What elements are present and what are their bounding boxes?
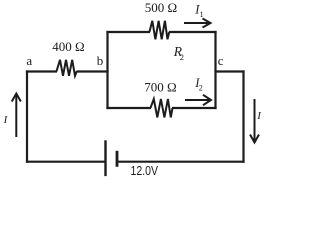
wire top branch left segment [106,31,150,33]
wire parallel-box left vertical [106,31,108,109]
current arrow I right (down) [250,99,259,143]
wire parallel-box right vertical [214,31,216,109]
svg-text:I: I [256,110,262,122]
current arrow I2 [185,95,211,105]
wire right vertical (c down to battery side) [242,70,244,162]
svg-text:2: 2 [180,52,184,62]
svg-text:12.0V: 12.0V [131,164,159,178]
resistor R1 400 ohm zigzag [57,60,77,76]
svg-text:500 Ω: 500 Ω [145,0,177,15]
wire bottom branch left segment [106,107,151,109]
svg-text:b: b [97,53,104,68]
wire c to right edge [214,70,244,72]
wire b segment (resistor to parallel box) [77,70,109,72]
current arrow I1 [184,19,211,28]
resistor 500 ohm zigzag [150,21,170,40]
wire top branch right segment [169,31,217,33]
wire bottom branch right segment [172,107,217,109]
battery B1 short plate (negative) [116,151,119,167]
svg-text:2: 2 [199,84,203,93]
battery B1 long plate (positive) [104,140,106,176]
wire bottom right segment [117,161,245,163]
wire a to b left segment [26,70,57,72]
resistor 700 ohm zigzag [151,99,173,117]
svg-text:1: 1 [200,10,204,19]
svg-text:c: c [218,53,224,68]
wire bottom left segment [26,161,106,163]
svg-text:700 Ω: 700 Ω [144,80,176,95]
current arrow I left (up) [12,94,21,138]
svg-text:400 Ω: 400 Ω [52,39,84,54]
wire left vertical (node a down to battery) [26,70,28,162]
svg-text:a: a [26,53,32,68]
svg-text:I: I [3,114,9,126]
